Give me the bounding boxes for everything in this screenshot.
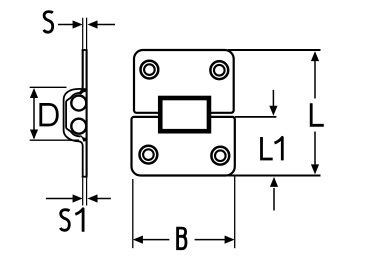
side view: lower knuckle ring: [71, 119, 86, 134]
top edge extension line for L: [228, 49, 321, 51]
side view: link outer surface (jog around knuckles): [64, 89, 86, 177]
front view: central knuckle block: [160, 98, 209, 131]
bottom edge extension line for L and L1: [228, 175, 321, 177]
side view: top leaf west surface curling into upper knuckle: [79, 50, 83, 93]
side view: junction fill at bottom of lower knuckle: [80, 135, 86, 141]
dimension L line with arrows: [311, 51, 319, 174]
dimension L label: [311, 103, 324, 125]
side view: east surface line (continuous): [86, 50, 88, 177]
dimension S label: [44, 12, 53, 33]
front view: top-right screw hole: [210, 61, 228, 79]
dimension B left extension line: [132, 179, 134, 248]
dimension S1 left leader and arrow: [46, 194, 83, 202]
dimension D top extension line: [30, 86, 67, 88]
side view: leaf top cap: [82, 49, 88, 51]
dimension B line with arrows: [133, 236, 235, 244]
dimension B label: [178, 228, 186, 249]
dimension S left leader and arrow: [58, 20, 83, 28]
dimension L1 label: [262, 137, 273, 159]
dimension D line with arrows: [30, 88, 38, 140]
side view: link inner surface: [66, 93, 80, 136]
side view: top extension lines for S: [83, 18, 87, 50]
dimension L1 upper arrow: [269, 90, 277, 116]
dimension B right extension line: [234, 175, 236, 248]
dimension S1 label: [60, 210, 69, 231]
front view: lower split line extension to L1: [235, 116, 277, 118]
dimension D bottom extension line: [30, 139, 79, 141]
front view: bottom leaf outline: [132, 117, 235, 176]
front view: bottom-left screw hole: [140, 146, 158, 164]
side view: leaf bottom cap: [82, 176, 88, 178]
front view: top-left screw hole: [141, 61, 159, 79]
front view: top leaf outline: [134, 50, 234, 113]
dimension D label: [41, 104, 58, 125]
dimension S1 right leader and arrow: [88, 194, 111, 202]
dimension S right leader and arrow: [88, 20, 116, 28]
side view: bottom extension lines for S1: [83, 178, 87, 206]
side view: upper knuckle ring: [71, 96, 86, 111]
side view: junction fill at top of upper knuckle: [80, 88, 86, 94]
front view: bottom-right screw hole: [211, 147, 229, 165]
dimension L1 lower arrow: [270, 177, 278, 211]
